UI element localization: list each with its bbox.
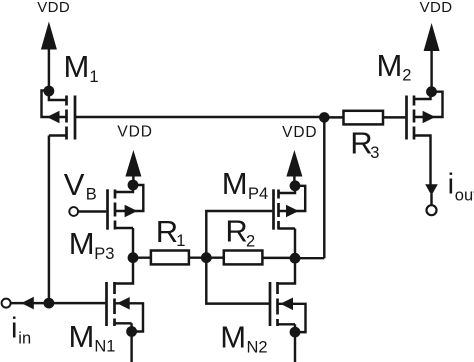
wire: MP3 drain down to node A (132, 228, 134, 258)
resistor R1 (133, 251, 206, 265)
wire: M1 gate to R3 node (long horizontal) (76, 116, 324, 118)
power VDD symbol top-right (arrow to VDD) (424, 23, 440, 92)
junction dot: gate line / R3 node (319, 112, 330, 123)
svg-text:N1: N1 (94, 338, 115, 356)
svg-text:in: in (18, 330, 31, 348)
wire: node C right to vertical from R3 node (295, 257, 324, 259)
svg-text:1: 1 (176, 232, 185, 250)
junction dot: M2 source/bulk at VDD node (426, 86, 437, 97)
junction dot: input node (44, 298, 55, 309)
output terminal i_out (arrow down to open circle) (425, 184, 438, 215)
svg-text:2: 2 (402, 67, 411, 85)
junction dot: node B (R1/R2/gates MP4,MN2) (201, 252, 212, 263)
svg-text:R: R (156, 214, 178, 249)
input terminal i_in (open circle) (2, 299, 11, 308)
current arrow i_in (points left) (21, 297, 34, 310)
wire: M1 drain down to input node (48, 136, 50, 304)
svg-text:M: M (220, 320, 246, 355)
svg-text:P4: P4 (248, 185, 268, 203)
svg-text:M: M (69, 226, 95, 261)
svg-text:i: i (11, 312, 17, 344)
power VDD symbol mid-left (arrow to VDD) (125, 150, 141, 185)
svg-text:M: M (69, 319, 95, 354)
junction dot: node C (MP4 drain / MN2 drain / R2 / to R3 node) (290, 253, 301, 264)
transistor M1 (PMOS, stubs to left) (42, 91, 76, 140)
wire: MP4 drain down to node C (294, 229, 296, 259)
junction dot: MP4 source/bulk at VDD node (290, 180, 301, 191)
resistor R2 (206, 251, 295, 265)
transistor MN2 (NMOS, stubs to right) (270, 258, 306, 332)
wire: MN2 source down (to ground, clipped) (294, 324, 296, 362)
junction dot: node A (MP3 drain / MN1 drain / R1) (128, 252, 139, 263)
svg-text:1: 1 (89, 68, 98, 86)
power VDD symbol top-left (arrow to VDD) (41, 22, 57, 92)
wire: node B down to MN2 gate (206, 258, 269, 304)
svg-text:VDD: VDD (282, 124, 317, 141)
wire: VB terminal to MP3 gate (78, 210, 106, 212)
svg-text:out: out (455, 187, 474, 205)
wire: MN1 source down (to ground, clipped) (130, 323, 132, 362)
svg-text:VDD: VDD (420, 0, 453, 16)
wire: R3 node down to node C (323, 117, 325, 258)
transistor MN1 (NMOS, stubs to right) (107, 258, 144, 332)
junction dot: MP3 source/bulk at VDD node (128, 180, 139, 191)
svg-text:M: M (377, 48, 403, 83)
wire: node B up to MP4 gate (206, 211, 272, 258)
svg-text:VDD: VDD (117, 124, 152, 141)
svg-text:R: R (225, 214, 247, 249)
transistor MP4 (PMOS, stubs to right) (274, 186, 306, 230)
svg-text:V: V (64, 167, 85, 202)
bias terminal VB (open circle) (69, 207, 78, 216)
power VDD symbol mid-right (arrow to VDD) (286, 150, 302, 186)
svg-text:M: M (222, 166, 248, 201)
transistor MP3 (PMOS, stubs to right) (108, 185, 144, 230)
wire: i_in terminal to MN1 gate (11, 302, 106, 304)
junction dot: MN1 source/bulk (126, 326, 137, 337)
svg-text:3: 3 (370, 144, 379, 162)
junction dot: M1 source/bulk at VDD node (44, 86, 55, 97)
resistor R3 (324, 111, 405, 125)
svg-text:N2: N2 (247, 339, 268, 357)
svg-text:i: i (448, 169, 454, 201)
svg-text:VDD: VDD (37, 0, 70, 16)
junction dot: MN2 source/bulk (290, 327, 301, 338)
svg-text:2: 2 (246, 233, 255, 251)
svg-text:M: M (64, 49, 90, 84)
svg-text:B: B (86, 186, 97, 204)
transistor M2 (PMOS, stubs to right) (407, 92, 443, 185)
svg-text:P3: P3 (94, 245, 114, 263)
